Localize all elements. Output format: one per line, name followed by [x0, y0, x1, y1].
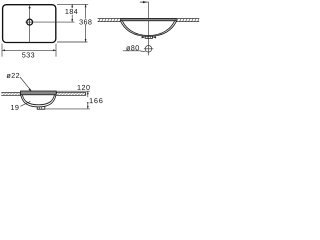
basin outline (rounded rectangle): [3, 5, 56, 43]
19 leader: [20, 101, 30, 106]
direction arrow at top: [140, 1, 148, 3]
dimension 368 line: [85, 4, 87, 18]
drain recess: [145, 36, 152, 38]
o80 leader: [123, 50, 146, 53]
extension line drain center (184): [34, 21, 74, 23]
text 533: [22, 52, 34, 57]
o80 drain circle: [145, 46, 152, 53]
120 text: [78, 85, 90, 90]
extension line 533 left: [1, 44, 3, 57]
basin rim band (section, gray fill): [121, 18, 176, 20]
drain inner ticks: [146, 36, 148, 38]
bowl outer wall: [21, 95, 56, 107]
bowl inner wall: [22, 95, 54, 105]
o22 leader: [20, 77, 31, 90]
text o80: [126, 45, 139, 50]
drain width arrow left: [142, 36, 145, 38]
166 text: [90, 98, 103, 103]
counter right segment (hatched): [176, 19, 199, 22]
166 dimension lower part: [87, 104, 89, 109]
text 184: [65, 9, 77, 14]
faucet hole (o22) marker: [29, 7, 31, 10]
drain crosshair horizontal tick: [25, 21, 34, 23]
bowl inner wall: [122, 21, 174, 36]
vertical centerline: [29, 4, 31, 43]
drain hole: [27, 19, 33, 25]
166 bottom extension line: [45, 108, 90, 110]
extension line top (184/368): [57, 3, 88, 5]
centerline: [148, 2, 150, 55]
counter left segment (hatched): [98, 19, 121, 22]
text 368: [79, 19, 91, 24]
counter left segment (hatched): [1, 93, 20, 96]
drain crosshair vertical tick: [29, 18, 31, 27]
drain width arrow right: [153, 36, 156, 38]
drain boss ticks: [38, 107, 40, 109]
drain boss: [37, 107, 45, 110]
basin rim band (section, gray fill): [21, 91, 57, 95]
dimension 184 line: [71, 4, 73, 8]
dimension 533 line: [2, 49, 56, 51]
extension line 533 right: [55, 44, 57, 57]
19 text: [11, 105, 19, 110]
o80 circle horizontal tick: [144, 48, 153, 50]
120/166 dimension line: [87, 91, 89, 97]
120 extension line (rim top level): [56, 90, 89, 92]
o22 text: [7, 73, 20, 78]
bowl outer wall: [121, 22, 176, 37]
counter right segment (hatched): [56, 93, 86, 96]
extension line bottom right (368): [57, 41, 88, 43]
